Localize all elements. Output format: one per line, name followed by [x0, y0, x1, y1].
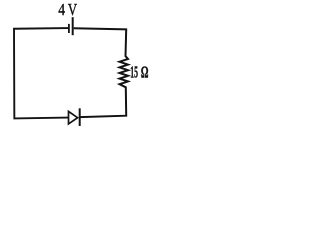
svg-text:Ω: Ω	[141, 63, 149, 82]
svg-text:4: 4	[58, 0, 65, 19]
svg-text:V: V	[68, 0, 77, 19]
svg-text:15: 15	[130, 63, 138, 82]
